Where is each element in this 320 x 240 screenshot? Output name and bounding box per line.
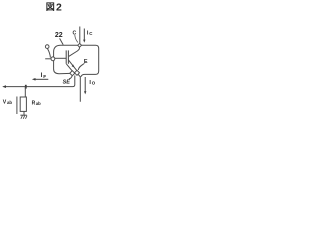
emitter lead 1: [69, 60, 77, 70]
base node: [51, 57, 55, 61]
leader from E: [78, 63, 84, 70]
junction tick: [25, 85, 27, 89]
svg-text:ab: ab: [7, 100, 12, 105]
transistor base bars: [65, 50, 67, 63]
svg-text:ab: ab: [36, 101, 41, 106]
resistor lead: [24, 87, 26, 97]
current arrow Ic: [83, 29, 85, 41]
collector inner lead: [69, 47, 80, 56]
base terminal lead: [47, 48, 50, 57]
current arrow IF: [34, 78, 48, 80]
svg-text:I: I: [41, 73, 43, 79]
current arrow Io (emitter): [84, 77, 86, 92]
svg-text:2: 2: [56, 2, 62, 13]
leader from 22 to envelope: [60, 38, 64, 44]
long cathode wire with left arrow: [4, 76, 75, 87]
leader from C: [75, 35, 78, 43]
emitter lead 2: [66, 64, 72, 71]
base input terminal: [45, 45, 49, 49]
diamond node 1: [70, 71, 75, 76]
svg-text:SE: SE: [63, 79, 71, 85]
base stub wire: [45, 58, 51, 60]
ground: [23, 111, 25, 115]
emitter junction wire down: [78, 74, 80, 102]
collector wire: [79, 27, 81, 44]
Vab arrow line: [16, 97, 18, 115]
envelope lower-left arc: [54, 61, 71, 74]
collector node (diamond): [78, 43, 82, 47]
diamond node 2: [75, 70, 80, 75]
resistor Rab box: [20, 97, 26, 111]
base wire: [55, 57, 66, 59]
leader from SE: [69, 76, 72, 79]
svg-text:C: C: [89, 31, 93, 36]
svg-text:図: 図: [46, 2, 55, 12]
envelope upper-left arc: [54, 45, 78, 57]
svg-text:O: O: [92, 80, 96, 85]
svg-text:22: 22: [55, 32, 63, 39]
outer collector loop wire: [81, 45, 99, 77]
emitter arrowhead: [72, 65, 75, 68]
svg-text:F: F: [43, 74, 46, 80]
